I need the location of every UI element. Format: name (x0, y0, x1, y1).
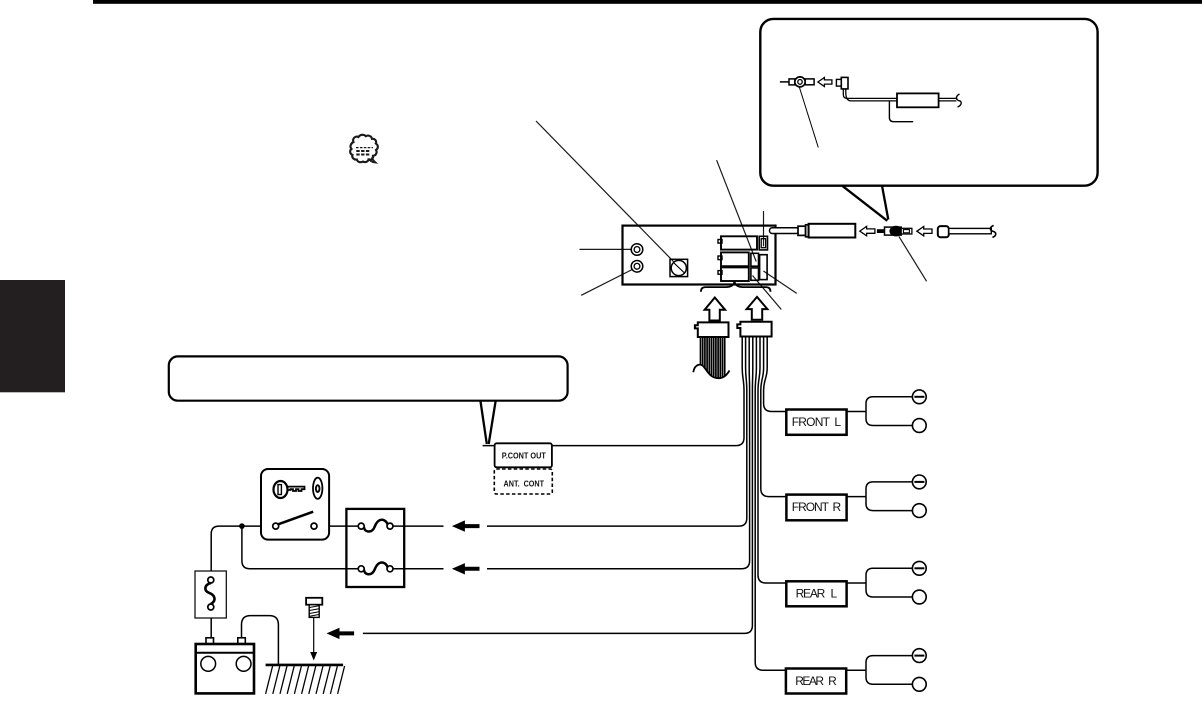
svg-text:ANT. CONT: ANT. CONT (504, 478, 545, 488)
svg-text:FRONT L: FRONT L (792, 415, 842, 429)
svg-text:P.CONT OUT: P.CONT OUT (502, 450, 547, 460)
svg-text:FRONT R: FRONT R (792, 500, 842, 514)
svg-text:REAR L: REAR L (796, 587, 838, 601)
svg-text:REAR R: REAR R (795, 674, 837, 688)
